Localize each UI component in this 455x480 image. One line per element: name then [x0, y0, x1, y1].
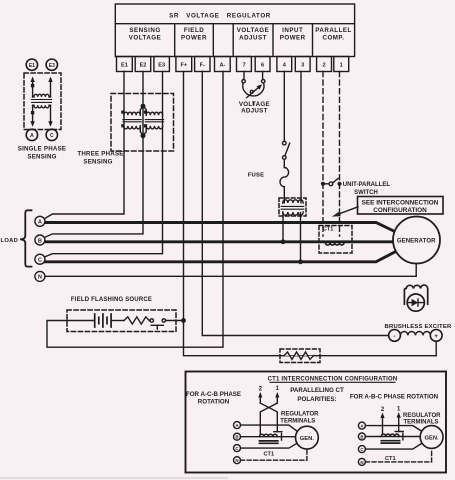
single phase sensing dashed box	[24, 73, 61, 130]
voltage regulator box U1	[115, 4, 354, 57]
svg-text:CONFIGURATION: CONFIGURATION	[373, 207, 427, 214]
label single phase sensing	[18, 145, 66, 160]
svg-text:SENSING: SENSING	[129, 27, 160, 34]
resistor R1 (flashing)	[124, 317, 149, 324]
svg-text:1: 1	[397, 407, 401, 413]
svg-text:3: 3	[301, 62, 304, 68]
svg-text:UNIT-PARALLEL: UNIT-PARALLEL	[343, 182, 391, 188]
wire exciter plus down	[435, 341, 437, 355]
junction dot F+ flashing	[181, 318, 186, 323]
bus A	[45, 223, 395, 232]
svg-text:VOLTAGE: VOLTAGE	[237, 27, 270, 34]
field flashing source dashed box	[67, 310, 176, 332]
svg-text:N: N	[235, 458, 238, 463]
svg-text:C: C	[38, 258, 42, 264]
CT1 interconnection configuration box	[186, 372, 447, 473]
svg-text:TERMINALS: TERMINALS	[404, 420, 439, 426]
svg-text:FOR A-B-C PHASE ROTATION: FOR A-B-C PHASE ROTATION	[350, 394, 439, 401]
svg-text:B: B	[360, 434, 363, 439]
svg-text:ADJUST: ADJUST	[239, 35, 267, 42]
CT1 polarity tick (left)	[274, 432, 282, 440]
svg-text:1: 1	[340, 62, 343, 68]
resistor R2	[284, 352, 314, 359]
terminal A-	[215, 57, 231, 72]
svg-text:A: A	[38, 220, 42, 226]
CT1 polarity tick (right)	[395, 432, 403, 440]
wire N dashed to gen (left)	[241, 450, 307, 460]
wire fuse to transformer T1	[283, 187, 285, 203]
wire A to gen (left)	[241, 425, 298, 431]
terminal 6	[255, 57, 270, 72]
svg-text:E3: E3	[158, 62, 165, 68]
wire terminal 7 to rheostat	[243, 72, 245, 80]
rheostat R-adj (voltage adjust)	[239, 80, 270, 115]
svg-text:SEE INTERCONNECTION: SEE INTERCONNECTION	[362, 200, 439, 207]
node E3 (single phase)	[46, 59, 57, 70]
svg-text:7: 7	[242, 62, 245, 68]
svg-text:1: 1	[276, 386, 280, 392]
node A (single phase)	[26, 129, 37, 140]
fuse F1	[248, 168, 289, 187]
junction dot E2 bottom	[141, 133, 146, 138]
node C (left diagram)	[234, 445, 241, 452]
wire C to gen (left)	[241, 443, 298, 448]
svg-text:4: 4	[283, 62, 287, 68]
bus C	[45, 252, 395, 262]
terminal E2	[135, 57, 151, 72]
scan artifact bottom edge	[0, 477, 228, 478]
svg-text:TERMINALS: TERMINALS	[280, 419, 315, 425]
svg-text:CT1: CT1	[323, 227, 334, 233]
svg-text:THREE PHASE: THREE PHASE	[77, 150, 123, 157]
svg-text:6: 6	[261, 62, 264, 68]
switch S1 (input power)	[283, 141, 290, 159]
svg-text:SENSING: SENSING	[27, 154, 56, 161]
terminal E1	[117, 57, 133, 72]
arrow to E3	[48, 77, 52, 83]
svg-text:F+: F+	[180, 62, 187, 68]
load bracket label	[1, 210, 32, 266]
transformer T3 (three phase PT left)	[121, 107, 143, 135]
pushbutton S3	[150, 319, 165, 329]
label regulator terminals (left)	[280, 412, 319, 425]
CT1 core (left)	[260, 441, 278, 443]
wire F+ down	[183, 72, 185, 321]
crossed CT leads (left)	[260, 403, 277, 434]
svg-text:2: 2	[259, 386, 263, 392]
svg-text:ADJUST: ADJUST	[241, 108, 268, 115]
wire B through CT1 (left)	[241, 436, 297, 438]
terminal 1	[334, 57, 349, 72]
svg-text:C: C	[50, 133, 54, 139]
svg-text:E1: E1	[121, 62, 128, 68]
svg-text:INPUT: INPUT	[282, 27, 303, 34]
svg-text:B: B	[235, 435, 238, 440]
wire E1 to bus A tap	[44, 72, 124, 219]
wire terminal 1 dashed	[339, 72, 341, 237]
arrow to C	[48, 121, 52, 127]
CT1 winding (left)	[260, 434, 278, 437]
node A (right diagram)	[358, 422, 365, 429]
svg-text:FOR A-C-B PHASE: FOR A-C-B PHASE	[186, 391, 241, 398]
svg-text:CT1: CT1	[385, 456, 396, 462]
svg-text:N: N	[38, 275, 42, 281]
node A (left diagram)	[234, 422, 241, 429]
wire terminal 2 dashed	[322, 72, 324, 237]
arrow to A	[30, 121, 34, 127]
generator GEN (right)	[420, 426, 443, 449]
node C (right diagram)	[358, 446, 365, 453]
svg-text:POWER: POWER	[280, 35, 306, 42]
node A	[35, 216, 45, 226]
svg-text:COMP.: COMP.	[323, 35, 345, 42]
exciter field winding L1	[400, 332, 430, 336]
svg-text:+: +	[434, 333, 438, 340]
arrow note to CT1	[332, 207, 358, 217]
svg-text:E3: E3	[49, 63, 55, 69]
svg-text:F-: F-	[200, 62, 205, 68]
svg-text:POLARITIES:: POLARITIES:	[297, 396, 336, 403]
node C (single phase)	[46, 129, 57, 140]
exciter minus terminal	[389, 330, 401, 342]
node B	[35, 235, 45, 245]
CT1 winding (right)	[381, 434, 399, 437]
svg-text:GENERATOR: GENERATOR	[397, 238, 436, 244]
battery BT1	[95, 314, 111, 327]
label paralleling CT polarities	[290, 387, 344, 403]
arrow to E1	[30, 77, 34, 83]
junction dot on bus C	[298, 259, 303, 264]
wire resistor to pushbutton	[148, 320, 151, 322]
svg-text:FIELD: FIELD	[184, 27, 204, 34]
svg-text:PARALLELING CT: PARALLELING CT	[290, 387, 344, 394]
label three phase sensing	[77, 150, 123, 165]
wire N	[43, 275, 416, 277]
svg-text:SR VOLTAGE REGULATOR: SR VOLTAGE REGULATOR	[169, 13, 271, 20]
rotating rectifier CR1	[404, 285, 427, 311]
junction dot E2 top	[141, 104, 146, 109]
wire T1 secondary to bus B	[282, 213, 284, 242]
transformer T1	[281, 200, 304, 215]
generator G1	[393, 217, 440, 264]
svg-text:LOAD: LOAD	[1, 238, 19, 244]
series resistor R2 dashed box	[280, 349, 320, 363]
svg-text:REGULATOR: REGULATOR	[281, 412, 319, 418]
svg-text:REGULATOR: REGULATOR	[403, 413, 441, 419]
svg-text:A-: A-	[219, 62, 225, 68]
wire battery to resistor	[111, 320, 124, 322]
wire A to gen (right)	[365, 426, 421, 431]
wire E3 to bus C tap	[44, 72, 162, 258]
svg-text:A: A	[30, 133, 34, 139]
svg-text:VOLTAGE: VOLTAGE	[129, 35, 162, 42]
svg-text:-: -	[393, 333, 395, 340]
terminal F-	[195, 57, 210, 72]
wire C to gen (right)	[365, 444, 421, 450]
terminal F+	[176, 57, 192, 72]
svg-text:PARALLEL: PARALLEL	[315, 27, 352, 34]
CT1 core (right)	[381, 441, 399, 443]
bus B	[44, 240, 394, 243]
svg-text:CT1: CT1	[264, 452, 275, 458]
exciter plus terminal	[430, 330, 442, 342]
svg-text:E2: E2	[140, 62, 147, 68]
wire F+ to exciter plus	[184, 321, 437, 356]
node N (left diagram)	[234, 457, 241, 464]
terminal 2	[317, 57, 332, 72]
wire terminal 3 to transformer T1	[300, 72, 302, 203]
wire switch to fuse	[283, 159, 285, 167]
terminal 4	[277, 57, 292, 72]
arrow 1 (left)	[275, 392, 279, 403]
svg-text:GEN.: GEN.	[300, 436, 315, 442]
transformer T4 (three phase PT right)	[143, 107, 163, 135]
see interconnection configuration note box	[358, 197, 444, 215]
svg-text:ROTATION: ROTATION	[198, 398, 230, 405]
terminal 3	[295, 57, 310, 72]
wire A- down to flashing return	[47, 72, 223, 348]
node B (left diagram)	[234, 433, 241, 440]
svg-text:SWITCH: SWITCH	[354, 190, 378, 196]
svg-text:2: 2	[381, 407, 385, 413]
generator GEN (left)	[296, 426, 319, 449]
wire pushbutton to F+ junction	[166, 320, 184, 322]
svg-text:2: 2	[322, 62, 325, 68]
arrow 2 (right)	[380, 413, 384, 434]
wire terminal 4 to switch	[283, 72, 285, 142]
arrow 1 (right)	[397, 412, 401, 431]
svg-text:GEN.: GEN.	[425, 435, 440, 441]
node N (right diagram)	[358, 458, 365, 465]
transformer T2 (single phase PT)	[31, 79, 52, 124]
wire terminal 6 to rheostat	[262, 72, 264, 80]
wire B through CT1 (right)	[365, 436, 420, 438]
junction dot on bus B	[281, 239, 286, 244]
unit-parallel switch S2	[321, 178, 390, 195]
wire T1 secondary to bus C	[300, 213, 302, 262]
svg-text:FUSE: FUSE	[248, 172, 265, 178]
svg-text:POWER: POWER	[181, 35, 207, 42]
node C	[35, 254, 45, 264]
label regulator terminals (right)	[403, 413, 441, 426]
svg-text:B: B	[38, 238, 42, 244]
svg-text:CT1 INTERCONNECTION CONFIGURAT: CT1 INTERCONNECTION CONFIGURATION	[268, 376, 398, 382]
wire E2 to bus B tap	[44, 72, 143, 238]
node N	[35, 271, 45, 281]
svg-text:FIELD FLASHING SOURCE: FIELD FLASHING SOURCE	[71, 297, 152, 303]
svg-text:N: N	[360, 460, 363, 465]
svg-text:E1: E1	[29, 63, 35, 69]
wire N dashed to gen (right)	[365, 449, 431, 462]
three phase sensing dashed box	[111, 94, 174, 152]
arrow 2 (left)	[258, 392, 262, 403]
svg-text:SENSING: SENSING	[83, 159, 112, 166]
terminal 7	[237, 57, 252, 72]
node B (right diagram)	[358, 433, 365, 440]
current transformer CT1 dashed box	[319, 226, 352, 254]
wire F- down and to exciter	[202, 72, 388, 336]
label for A-C-B phase rotation	[186, 391, 241, 406]
node E1 (single phase)	[26, 59, 37, 70]
svg-text:SINGLE PHASE: SINGLE PHASE	[18, 145, 66, 152]
input power transformer T1 dashed box	[279, 198, 306, 216]
CT1 winding	[325, 243, 344, 246]
terminal E3	[154, 57, 170, 72]
wire generator to N	[415, 264, 417, 277]
